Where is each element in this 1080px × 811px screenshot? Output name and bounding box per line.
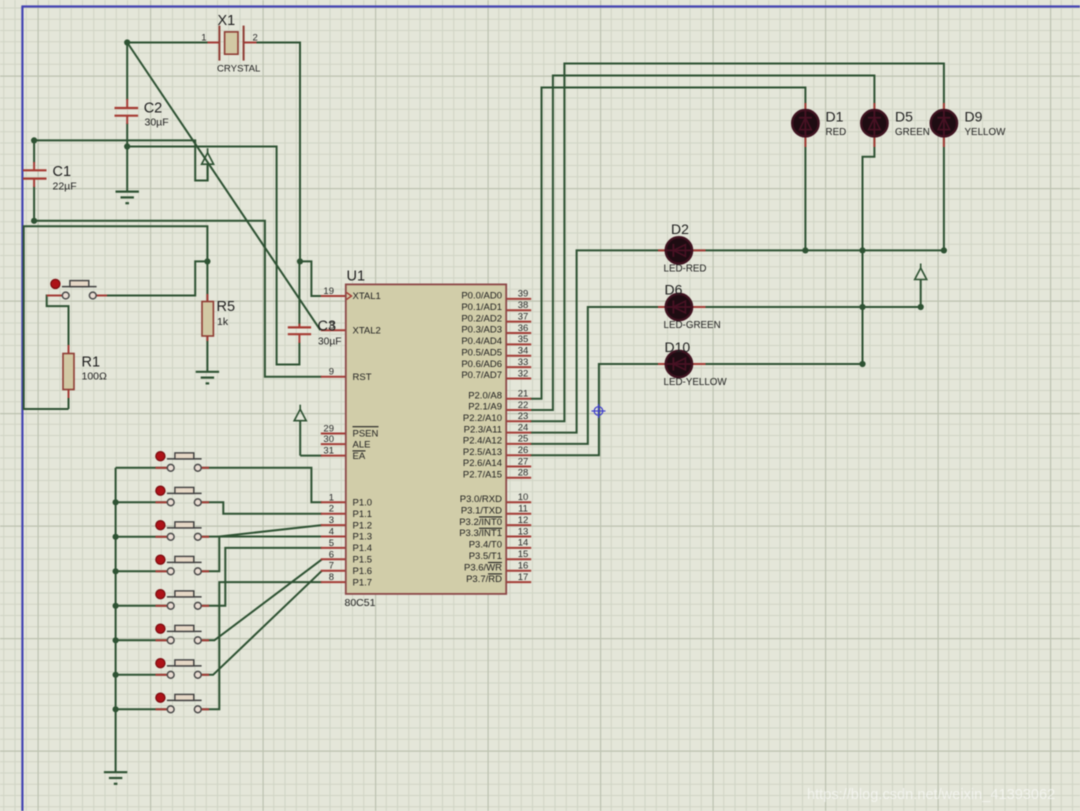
svg-text:25: 25 [518, 434, 529, 445]
pin stubs button1 [156, 467, 168, 469]
pin stub crystal pin2 [244, 42, 257, 44]
svg-text:8: 8 [329, 321, 334, 332]
svg-text:P2.7/A15: P2.7/A15 [463, 470, 502, 481]
svg-text:CRYSTAL: CRYSTAL [217, 64, 261, 75]
svg-text:P3.1/TXD: P3.1/TXD [461, 505, 502, 516]
wire C1 top stub [33, 140, 35, 163]
pin stub SW9 right [97, 295, 108, 297]
pushbutton [156, 486, 165, 495]
svg-text:24: 24 [518, 422, 529, 433]
svg-text:13: 13 [518, 526, 529, 537]
wire P2.2 to D9 top bus [530, 64, 944, 422]
svg-text:D9: D9 [965, 109, 983, 125]
pin stubs button8 [156, 708, 168, 710]
wire R1/R5 loop bus [24, 226, 208, 409]
wire SW8 to P1.7 [201, 582, 322, 709]
svg-text:17: 17 [518, 572, 529, 583]
pin stub R5 top [206, 294, 208, 303]
svg-text:P1.2: P1.2 [353, 520, 373, 531]
LED D5 [861, 110, 887, 136]
svg-text:YELLOW: YELLOW [965, 127, 1007, 138]
pin stub C3 top [298, 324, 300, 327]
svg-text:U1: U1 [347, 269, 366, 285]
sheet border (blue) [21, 5, 1080, 7]
svg-text:37: 37 [518, 311, 529, 322]
svg-text:P3.2/INT0: P3.2/INT0 [459, 517, 502, 528]
svg-text:36: 36 [518, 323, 529, 334]
svg-text:15: 15 [518, 549, 529, 560]
svg-text:16: 16 [518, 561, 529, 572]
pushbutton [156, 659, 165, 668]
wire D1 bottom [804, 137, 806, 251]
wire button SW9 left to R1 top [47, 296, 69, 347]
chip right pin stubs (P0, P2, P3) [506, 298, 531, 300]
svg-text:P1.1: P1.1 [353, 509, 373, 520]
svg-text:P2.1/A9: P2.1/A9 [468, 402, 502, 413]
power terminal VCC (EA) [299, 405, 301, 410]
chip U1 body (80C51) [346, 284, 506, 594]
svg-text:27: 27 [518, 456, 529, 467]
wire P2.3 to D2 row [530, 250, 666, 432]
svg-text:34: 34 [518, 346, 529, 357]
wire crystal-right to XTAL1 column [257, 43, 301, 262]
svg-text:39: 39 [518, 289, 529, 300]
ground symbol (R5) [196, 371, 219, 373]
svg-text:1k: 1k [217, 316, 229, 328]
wire SW3 to P1.3 [201, 536, 322, 538]
pin stubs button7 [156, 674, 168, 676]
wire SW1 to P1.0 [201, 468, 322, 503]
svg-text:P0.1/AD1: P0.1/AD1 [461, 302, 502, 313]
svg-text:10: 10 [518, 492, 529, 503]
wire D9 bottom [943, 137, 945, 251]
svg-text:30µF: 30µF [318, 336, 341, 347]
svg-text:R1: R1 [82, 355, 101, 371]
svg-text:35: 35 [518, 334, 529, 345]
svg-text:P1.3: P1.3 [353, 532, 373, 543]
wire bus C1 top to power arrow [34, 140, 208, 180]
capacitor C3 [288, 326, 311, 328]
svg-text:RST: RST [353, 372, 372, 383]
svg-text:11: 11 [518, 504, 528, 515]
wire button6 left [116, 639, 168, 641]
pin stub SW9 left [47, 295, 67, 297]
svg-text:P2.6/A14: P2.6/A14 [463, 458, 502, 469]
svg-text:P0.0/AD0: P0.0/AD0 [461, 291, 502, 302]
wire button SW9 right to R5 node [97, 261, 208, 295]
svg-text:22: 22 [518, 400, 529, 411]
svg-text:P2.2/A10: P2.2/A10 [463, 413, 502, 424]
wire button3 left [116, 536, 168, 538]
svg-text:1: 1 [201, 33, 206, 44]
wire P2.4 to D6 row [530, 307, 666, 444]
wire crystal-left to junction [127, 42, 207, 44]
svg-text:P2.3/A11: P2.3/A11 [464, 424, 502, 435]
svg-text:6: 6 [329, 549, 334, 560]
power terminal VCC (right) [920, 264, 922, 269]
wire D6 row right [692, 306, 920, 308]
LED D6 [666, 294, 692, 320]
pin stub C3 bottom [298, 335, 300, 343]
ground symbol (C2) [116, 191, 139, 193]
LED D10 [666, 351, 692, 377]
origin marker (blue) [592, 404, 606, 418]
svg-text:19: 19 [323, 286, 334, 297]
pushbutton [156, 590, 165, 599]
svg-text:23: 23 [518, 411, 529, 422]
svg-text:GREEN: GREEN [895, 127, 930, 138]
svg-text:7: 7 [329, 561, 334, 572]
wire button2 left [116, 501, 168, 503]
pin stubs D6 [658, 306, 666, 308]
pin stubs D10 [658, 363, 666, 365]
svg-text:22µF: 22µF [53, 181, 77, 193]
svg-text:P2.5/A13: P2.5/A13 [463, 447, 502, 458]
pin stubs button5 [156, 605, 168, 607]
wire C1 bottom [33, 186, 35, 221]
pin stub R1 top [68, 345, 70, 354]
pushbutton [156, 521, 165, 530]
wire R5 bottom to ground [206, 334, 208, 372]
svg-text:P0.7/AD7: P0.7/AD7 [461, 370, 502, 381]
svg-text:P3.7/RD: P3.7/RD [466, 574, 502, 585]
wire D5 bottom jog to D10 row [863, 137, 875, 364]
svg-text:31: 31 [323, 446, 334, 457]
wire button5 left [116, 605, 168, 607]
wire SW6 to P1.5 [201, 559, 322, 640]
svg-text:29: 29 [323, 424, 334, 435]
svg-text:EA: EA [353, 451, 366, 462]
svg-text:26: 26 [518, 445, 529, 456]
svg-text:P2.4/A12: P2.4/A12 [463, 436, 502, 447]
pushbutton [156, 693, 165, 702]
pin stub C1 top [33, 162, 35, 170]
svg-text:P1.0: P1.0 [353, 498, 373, 509]
svg-text:2: 2 [329, 504, 334, 515]
wire button1 left [116, 467, 168, 469]
svg-text:C2: C2 [144, 101, 163, 117]
wire SW5 to P1.4 [201, 548, 322, 606]
svg-text:3: 3 [329, 515, 334, 526]
pin stubs D2 [658, 249, 666, 251]
svg-text:32: 32 [518, 368, 529, 379]
svg-text:R5: R5 [217, 299, 236, 315]
svg-text:D2: D2 [671, 221, 689, 237]
svg-text:30: 30 [323, 434, 334, 445]
wire C2 bottom to ground [126, 123, 128, 192]
svg-text:100Ω: 100Ω [82, 371, 108, 383]
svg-text:80C51: 80C51 [345, 597, 376, 609]
svg-text:C1: C1 [53, 164, 72, 180]
svg-text:P0.6/AD6: P0.6/AD6 [461, 359, 502, 370]
svg-text:PSEN: PSEN [353, 429, 379, 440]
capacitor C2 [115, 107, 139, 109]
svg-text:14: 14 [518, 538, 529, 549]
svg-text:D5: D5 [895, 109, 913, 125]
pin stub crystal pin1 [208, 42, 220, 44]
power terminal VCC (left) [207, 148, 209, 153]
svg-text:38: 38 [518, 300, 529, 311]
svg-text:D6: D6 [665, 282, 683, 298]
pin stub R1 bottom [68, 389, 70, 398]
capacitor C1 [23, 169, 47, 171]
resistor R1 [63, 354, 74, 390]
svg-text:D1: D1 [826, 109, 844, 125]
svg-text:5: 5 [329, 538, 334, 549]
svg-text:RED: RED [826, 127, 847, 138]
wire P2.1 to D5 top bus [530, 76, 874, 411]
chip left pin stubs (XTAL1,XTAL2,RST,PSEN,ALE,EA,P1.0-P1.7) [321, 295, 346, 297]
svg-text:P0.5/AD5: P0.5/AD5 [461, 347, 502, 358]
wire RST net: C1 bottom to RST pin [34, 221, 321, 377]
wire R1 bottom stub [58, 408, 69, 410]
wire R5 top [206, 261, 208, 304]
wire button bus vertical [115, 468, 117, 772]
svg-text:XTAL2: XTAL2 [353, 325, 381, 336]
svg-text:12: 12 [518, 515, 529, 526]
svg-text:P3.3/INT1: P3.3/INT1 [459, 528, 502, 539]
svg-text:4: 4 [329, 527, 334, 538]
wire junction to C2 top [126, 43, 128, 101]
svg-text:P3.4/T0: P3.4/T0 [469, 540, 502, 551]
pin stub D5 bottom [873, 136, 875, 147]
svg-text:X1: X1 [218, 13, 236, 29]
svg-text:P2.0/A8: P2.0/A8 [468, 390, 502, 401]
pin stubs button3 [156, 536, 168, 538]
svg-text:P1.7: P1.7 [353, 577, 373, 588]
wire button4 left [116, 570, 168, 572]
svg-text:D10: D10 [665, 339, 691, 355]
pin stub D9 top [943, 103, 945, 111]
crystal X1 [218, 26, 220, 61]
wire SW2 to P1.1 [201, 502, 322, 513]
svg-text:33: 33 [518, 357, 529, 368]
svg-text:P1.4: P1.4 [353, 543, 373, 554]
svg-text:P1.6: P1.6 [353, 566, 373, 577]
diagonal wire junction to XTAL2 [127, 43, 320, 331]
pin stubs button2 [156, 501, 168, 503]
pin stubs button6 [156, 639, 168, 641]
wire P2.5 to D10 row [530, 364, 666, 455]
pin stub D5 top [873, 103, 875, 111]
resistor R5 [202, 302, 213, 337]
wire button8 left [116, 708, 168, 710]
svg-text:P1.5: P1.5 [353, 555, 373, 566]
svg-text:9: 9 [329, 367, 334, 378]
svg-text:21: 21 [518, 389, 529, 400]
wire SW4 to P1.2 [201, 525, 322, 571]
svg-text:https://blog.csdn.net/weixin_4: https://blog.csdn.net/weixin_41393062 [807, 787, 1055, 803]
svg-text:P3.0/RXD: P3.0/RXD [460, 494, 502, 505]
svg-text:30µF: 30µF [145, 117, 169, 129]
wire XTAL1 jog [300, 261, 322, 296]
pushbutton [51, 279, 60, 288]
LED D9 [931, 110, 957, 136]
pin stub D9 bottom [943, 136, 945, 147]
ground symbol (button bus) [104, 771, 127, 773]
pin stub R5 bottom [206, 333, 208, 341]
svg-text:8: 8 [329, 572, 334, 583]
LED D1 [792, 110, 818, 136]
junction dots [124, 39, 130, 45]
svg-text:LED-GREEN: LED-GREEN [664, 320, 721, 331]
pushbutton [156, 452, 165, 461]
wire C3 top [298, 261, 300, 324]
svg-text:ALE: ALE [353, 439, 371, 450]
svg-text:28: 28 [518, 468, 529, 479]
svg-text:LED-RED: LED-RED [664, 264, 707, 275]
pushbutton [156, 624, 165, 633]
wire SW7 to P1.6 [201, 571, 322, 675]
svg-text:P0.3/AD3: P0.3/AD3 [461, 325, 502, 336]
XTAL1 clock marker [347, 293, 352, 300]
pushbutton [156, 555, 165, 564]
pin stubs button4 [156, 570, 168, 572]
pin stub C1 bottom [33, 180, 35, 188]
svg-text:XTAL1: XTAL1 [353, 291, 381, 302]
wire P2.0 to D1 top bus [530, 88, 805, 399]
pin stub C2 top [126, 99, 128, 108]
pin stub D1 top [804, 103, 806, 111]
wire bus C2 to C3-bottom loop [127, 147, 299, 365]
wire D10 row right [692, 363, 862, 365]
wire D2 row right [692, 249, 944, 251]
svg-text:P3.5/T1: P3.5/T1 [469, 551, 502, 562]
svg-text:2: 2 [253, 33, 258, 44]
svg-text:P0.2/AD2: P0.2/AD2 [461, 313, 502, 324]
pin stub C2 bottom [126, 116, 128, 124]
pin stub D1 bottom [804, 136, 806, 147]
svg-text:P0.4/AD4: P0.4/AD4 [461, 336, 502, 347]
svg-text:1: 1 [329, 492, 334, 503]
LED D2 [666, 237, 692, 263]
wire EA to power arrow [300, 455, 322, 457]
wire button7 left [116, 674, 168, 676]
svg-text:P3.6/WR: P3.6/WR [464, 562, 502, 573]
svg-text:LED-YELLOW: LED-YELLOW [664, 377, 728, 388]
